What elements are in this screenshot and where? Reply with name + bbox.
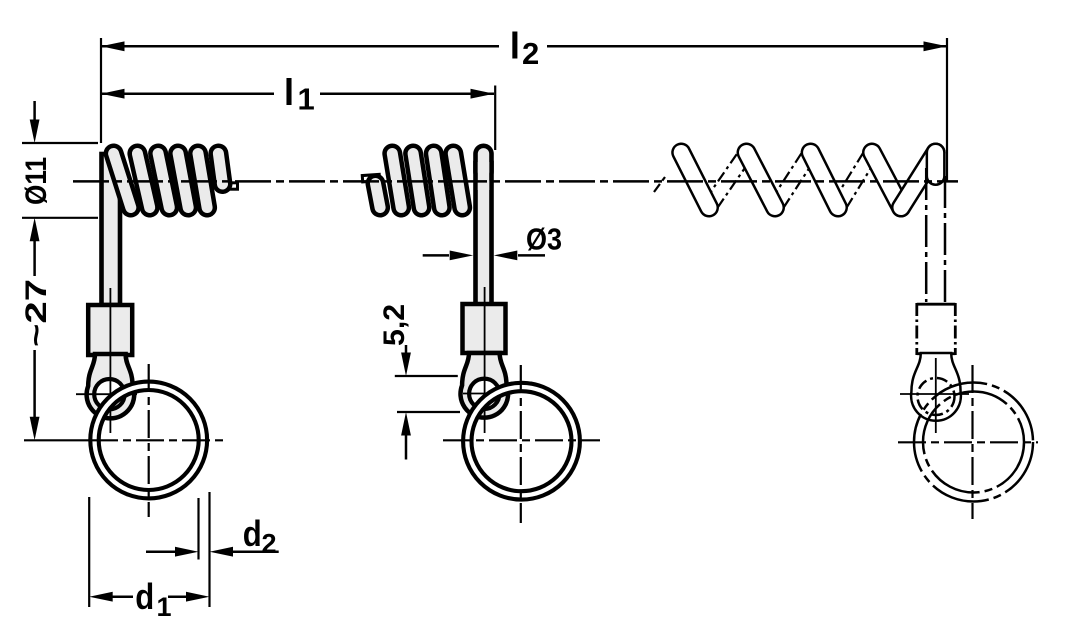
middle cable wire stem [476, 163, 492, 305]
svg-text:Ø3: Ø3 [526, 222, 562, 257]
svg-text:Ø11: Ø11 [20, 157, 53, 205]
extended spring front turn 3 [811, 153, 838, 208]
middle coil turn 2 [413, 154, 421, 208]
dimension line O11 with outside arrows [30, 101, 40, 241]
dimension l2 extension line left [100, 38, 102, 143]
extended spring front turn 2 [747, 153, 776, 208]
extended spring end riser [901, 153, 936, 208]
svg-text:5,2: 5,2 [378, 304, 411, 346]
middle ring centre line vertical [520, 365, 522, 523]
middle coil partial first turn [376, 184, 381, 208]
extended spring wire end stub (left) [654, 177, 665, 192]
dimension 5,2 extension line bottom [397, 411, 460, 413]
left ring centre line horizontal [90, 439, 227, 441]
dimension line d2 [146, 547, 279, 557]
right wire eyelet (phantom flask) [911, 353, 961, 421]
left coil turn 3 [158, 154, 169, 208]
left coil turn 5 [198, 154, 207, 208]
dimension 5,2 extension line top [395, 375, 458, 377]
left coil turn 6 (end, into tab) [218, 154, 222, 185]
left key ring (through eyelet) [90, 382, 207, 499]
label l2 [510, 26, 539, 71]
extended spring front turn 1 [681, 153, 709, 208]
middle wire stem rounded top [473, 154, 494, 172]
extended spring front turn 4 [872, 153, 901, 208]
extended spring hidden back strand 3 [834, 153, 875, 208]
middle coil turn 1 [392, 154, 401, 208]
svg-text:2: 2 [522, 36, 539, 71]
dimension line 5,2 with outside arrows [401, 345, 411, 460]
dimension line ~27 [30, 240, 40, 440]
middle key ring (through eyelet) [463, 383, 580, 500]
left eyelet centre mark vertical [109, 288, 111, 433]
middle wire eyelet (flask shape) [461, 353, 509, 418]
dimension l1 extension line right [494, 86, 496, 151]
dimension line l1 [101, 89, 494, 99]
middle coil turn 3 [434, 154, 442, 208]
middle ring centre line horizontal [443, 439, 600, 441]
right eyelet centre mark vertical [935, 358, 937, 433]
left coil turn 1 [114, 154, 131, 208]
left eyelet hole [94, 379, 124, 409]
svg-text:d: d [135, 576, 154, 617]
dimension O11 extension line bottom [22, 217, 98, 219]
dimension d1/d2 extension line (ring outer left) [88, 497, 90, 607]
main horizontal centre line [73, 180, 958, 183]
dimension line d1 [89, 592, 209, 602]
middle coil turn 4 [453, 154, 462, 208]
dimension ~27 extension line bottom (to ring centre) [24, 439, 90, 441]
extended wire phantom lines down to sleeve [925, 168, 928, 302]
extended spring hidden back strand 2 [771, 152, 814, 207]
middle wire stem junction patch [478, 162, 489, 190]
dimension line O3 with outside arrows [423, 251, 545, 261]
middle eyelet centre mark horizontal [463, 393, 512, 395]
svg-text:1: 1 [157, 592, 172, 622]
svg-text:2: 2 [262, 529, 277, 559]
svg-text:1: 1 [298, 82, 315, 117]
right eyelet hole [918, 378, 955, 415]
svg-text:d: d [243, 513, 262, 554]
left crimp sleeve [88, 305, 132, 355]
right ring centre line vertical [971, 365, 973, 519]
left coil turn 2 [137, 154, 149, 208]
right eyelet centre mark horizontal [900, 393, 969, 395]
dimension l2 extension line right [946, 38, 948, 182]
left coil turn 4 [178, 154, 188, 208]
dimension line l2 [101, 41, 947, 51]
right crimp sleeve (phantom) [917, 303, 956, 355]
label d1 [135, 576, 171, 622]
label l1 [284, 72, 315, 117]
middle crimp sleeve [463, 304, 506, 353]
left cable wire stem [102, 154, 121, 305]
right ring centre line horizontal [898, 441, 1038, 443]
svg-text:l: l [284, 72, 294, 113]
extended wire rounded top [926, 153, 946, 177]
left eyelet centre mark horizontal [76, 393, 137, 395]
middle eyelet centre mark vertical [484, 287, 486, 433]
left wire eyelet (flask shape) [87, 354, 135, 418]
svg-text:~27: ~27 [20, 279, 53, 347]
middle coil end tab (wire end) [362, 174, 379, 182]
extended spring hidden back strand 1 [706, 152, 751, 207]
dimension O11 extension line top [22, 142, 98, 144]
svg-text:l: l [510, 26, 520, 67]
dimension d1/d2 extension line (ring outer right) [208, 492, 210, 607]
label d2 [243, 513, 277, 558]
left ring centre line vertical [148, 364, 150, 517]
left coil end tab (wire end) [222, 183, 238, 189]
middle eyelet hole [469, 379, 499, 409]
right key ring (phantom) [914, 383, 1033, 502]
dimension d2 extension line (ring inner right) [197, 498, 199, 560]
